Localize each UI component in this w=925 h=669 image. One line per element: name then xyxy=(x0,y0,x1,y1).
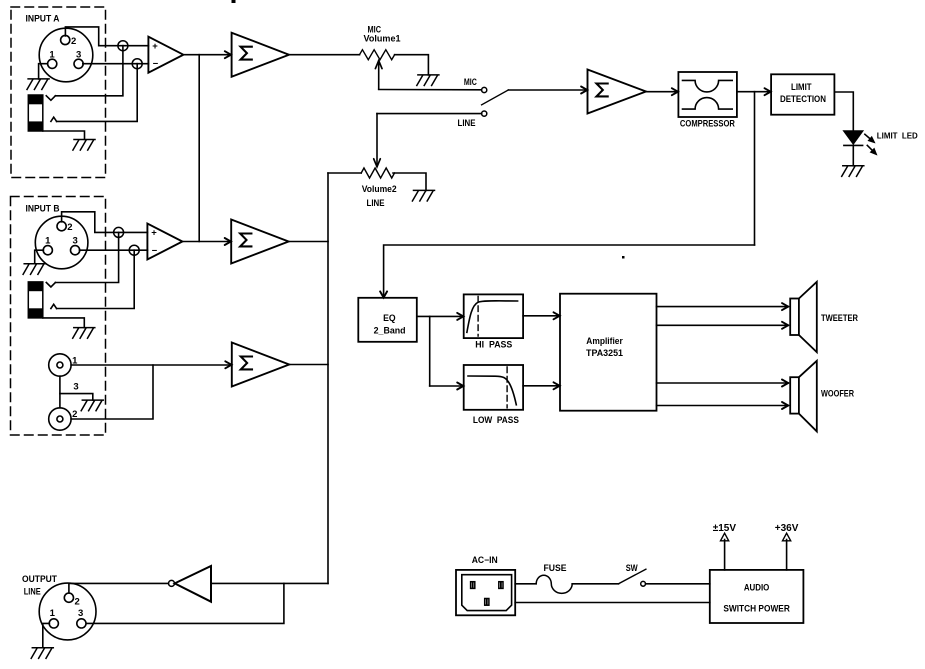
svg-text:+: + xyxy=(151,228,157,239)
wire AC neutral to power supply xyxy=(515,602,710,604)
wire LOW PASS to amplifier xyxy=(523,385,560,387)
junction circle A2 xyxy=(132,59,142,69)
switch terminal MIC xyxy=(482,87,487,92)
wire volume2 right to ground xyxy=(393,173,426,190)
connector XLR INPUT B xyxy=(35,216,88,269)
wire jack J-A ring to junction A2 xyxy=(57,64,138,122)
svg-text:TWEETER: TWEETER xyxy=(821,313,859,323)
wire compressor to limit detection xyxy=(737,91,771,93)
svg-text:WOOFER: WOOFER xyxy=(821,389,855,399)
summing amp SIGMA-3 xyxy=(232,343,289,387)
svg-text:LINE: LINE xyxy=(367,198,385,208)
wire XLR-A pin2 to junction A1 xyxy=(65,27,148,46)
power output +/-15V xyxy=(713,523,737,570)
wire sigma3 output to bus xyxy=(289,364,328,366)
wire EQ output branch xyxy=(417,316,430,386)
jack connector J-A xyxy=(28,95,43,131)
inverter U-INV xyxy=(169,566,212,602)
wire sigma2 output to bus xyxy=(289,241,328,243)
filter LOW PASS block xyxy=(464,365,523,425)
svg-text:INPUT B: INPUT B xyxy=(26,204,60,215)
volume1 wiper arrow xyxy=(378,61,380,89)
svg-text:Amplifier: Amplifier xyxy=(586,336,623,346)
wire fuse to switch xyxy=(572,583,618,585)
dashed enclosure INPUT B xyxy=(11,197,106,436)
connector AC-IN inlet xyxy=(456,555,515,615)
jack J-B tip contact xyxy=(46,283,55,288)
ground jack J-B sleeve xyxy=(73,328,95,339)
wire XLR-OUT pin1 to ground xyxy=(43,623,50,647)
LED D1 limit xyxy=(843,131,863,146)
svg-text:1: 1 xyxy=(49,50,55,61)
wire volume2 left to bus xyxy=(328,172,361,174)
svg-text:+36V: +36V xyxy=(775,523,799,534)
svg-text:AUDIO: AUDIO xyxy=(744,582,770,592)
junction circle B1 xyxy=(114,227,124,237)
switch terminal LINE xyxy=(482,111,487,116)
jack J-A tip contact xyxy=(46,96,55,101)
svg-text:Volume1: Volume1 xyxy=(364,34,401,44)
amplifier U-AMP TPA3251 block xyxy=(560,294,657,411)
power supply AUDIO SWITCH POWER block xyxy=(710,570,804,623)
svg-text:3: 3 xyxy=(76,50,81,61)
fuse F1 xyxy=(536,563,572,593)
wire amp B output to sigma 2 xyxy=(184,241,232,243)
wire inverter out to XLR-OUT pin2 xyxy=(69,583,168,593)
wire jack J-B tip to junction B1 xyxy=(55,232,118,282)
svg-text:AC−IN: AC−IN xyxy=(472,555,498,565)
svg-text:3: 3 xyxy=(73,382,78,393)
jack J-B ring contact xyxy=(51,304,57,308)
svg-text:1: 1 xyxy=(45,235,51,246)
wire limit detection to LED xyxy=(834,92,853,131)
wire XLR-B pin1 to ground xyxy=(35,250,44,264)
svg-text:2: 2 xyxy=(67,222,72,233)
wire LINE contact to volume2 wiper xyxy=(377,113,482,115)
pin labels XLR-OUT xyxy=(50,597,84,620)
wire bus to inverter xyxy=(211,582,328,584)
ground XLR-OUT pin1 xyxy=(31,648,53,659)
op-amp A (input A diff amp) xyxy=(148,37,183,73)
wire amp A output to sigma 1 xyxy=(185,54,232,56)
filter HI PASS block xyxy=(464,294,523,349)
ground RCA shield xyxy=(81,400,103,411)
wire XLR-A pin3 to amp minus xyxy=(83,63,149,65)
stray dot top xyxy=(232,0,236,3)
wire pin3 tap junction xyxy=(86,583,284,623)
svg-text:TPA3251: TPA3251 xyxy=(586,348,623,358)
speaker WOOFER xyxy=(790,361,854,432)
svg-text:2_Band: 2_Band xyxy=(374,325,406,335)
wire to LOW PASS xyxy=(430,385,464,387)
wire AC line to fuse xyxy=(515,583,536,585)
wire amp to tweeter - xyxy=(657,324,789,326)
wire RCA-1 to sigma 3 xyxy=(71,364,232,366)
connector XLR OUTPUT xyxy=(39,583,96,640)
svg-text:2: 2 xyxy=(75,597,80,608)
pin labels XLR-A xyxy=(49,36,81,61)
wire switch to sigma 4 xyxy=(508,89,587,91)
wire XLR-A pin1 to ground xyxy=(39,64,48,79)
switch SW1 blade xyxy=(482,90,509,105)
potentiometer MIC Volume1 xyxy=(360,24,401,59)
volume2 wiper arrow xyxy=(376,114,378,166)
speaker TWEETER xyxy=(790,282,858,352)
wire volume1 wiper to MIC switch contact xyxy=(379,89,482,91)
bus wire vertical (mix bus) xyxy=(327,173,329,583)
dashed enclosure INPUT A xyxy=(11,7,106,178)
switch SW power xyxy=(619,563,646,586)
svg-text:±15V: ±15V xyxy=(713,523,737,534)
wire jack J-B ring to junction B2 xyxy=(57,250,135,308)
svg-text:3: 3 xyxy=(72,235,77,246)
LED light arrows xyxy=(865,134,877,154)
wire LED to ground xyxy=(852,145,854,165)
svg-text:COMPRESSOR: COMPRESSOR xyxy=(680,118,736,128)
svg-text:SW: SW xyxy=(626,563,639,573)
jack J-A ring contact xyxy=(51,117,57,121)
svg-text:LIMIT: LIMIT xyxy=(791,82,812,92)
stray dot middle xyxy=(622,256,625,259)
summing amp SIGMA-2 xyxy=(231,220,288,264)
wire amp to woofer - xyxy=(657,405,789,407)
wire volume1 right to ground xyxy=(395,55,429,75)
potentiometer Volume2 LINE xyxy=(361,168,397,208)
ground volume1 xyxy=(417,75,439,86)
svg-text:SWITCH POWER: SWITCH POWER xyxy=(723,604,790,614)
svg-text:MIC: MIC xyxy=(464,77,478,87)
svg-text:EQ: EQ xyxy=(383,313,396,323)
power output +36V xyxy=(775,523,799,570)
wire jack J-A sleeve to ground xyxy=(43,131,85,140)
wire RCA shield to ground xyxy=(60,394,93,401)
wire XLR-B pin2 to junction B1 xyxy=(62,212,148,233)
wire feedback to EQ xyxy=(384,245,755,298)
jack connector J-B xyxy=(28,282,43,318)
svg-text:HI PASS: HI PASS xyxy=(475,340,512,350)
svg-text:OUTPUT: OUTPUT xyxy=(22,574,58,584)
ground jack J-A sleeve xyxy=(73,140,95,151)
ground XLR-B pin1 xyxy=(23,264,45,275)
svg-text:−: − xyxy=(152,246,158,257)
svg-text:LOW PASS: LOW PASS xyxy=(473,415,519,425)
svg-text:FUSE: FUSE xyxy=(544,563,567,573)
wire jack J-A tip to junction A1 xyxy=(55,46,123,96)
svg-text:Volume2: Volume2 xyxy=(362,184,397,194)
wire RCA link vertical xyxy=(59,376,61,408)
wire XLR-B pin3 to amp minus xyxy=(80,249,148,251)
pin labels XLR-B xyxy=(45,222,78,247)
svg-text:LINE: LINE xyxy=(458,118,476,128)
junction circle A1 xyxy=(118,41,128,51)
wire sigma4 to compressor xyxy=(646,91,678,93)
svg-text:+: + xyxy=(152,41,158,52)
wire HI PASS to amplifier xyxy=(523,315,560,317)
svg-text:2: 2 xyxy=(71,36,76,47)
svg-text:−: − xyxy=(153,59,159,70)
ground LED xyxy=(842,166,864,177)
junction circle B2 xyxy=(129,245,139,255)
ground volume2 xyxy=(412,190,434,201)
connector XLR INPUT A xyxy=(39,28,93,82)
ground XLR-A pin1 xyxy=(27,79,49,90)
node branch amp A output xyxy=(198,55,200,242)
op-amp B (input B diff amp) xyxy=(147,224,182,260)
svg-text:LIMIT LED: LIMIT LED xyxy=(877,131,918,141)
wire RCA-2 join xyxy=(71,365,153,419)
svg-text:3: 3 xyxy=(78,608,83,619)
connector RCA-2 xyxy=(49,408,78,430)
svg-text:LINE: LINE xyxy=(24,587,41,597)
node feedback junction xyxy=(754,92,756,245)
wire jack J-B sleeve to ground xyxy=(43,318,85,328)
limit detection U-LIM block xyxy=(771,74,834,114)
wire amp to woofer + xyxy=(657,382,789,384)
wire amp to tweeter + xyxy=(657,306,789,308)
wire to HI PASS xyxy=(430,315,464,317)
label OUTPUT LINE xyxy=(22,574,58,597)
svg-text:1: 1 xyxy=(50,608,56,619)
summing amp SIGMA-4 xyxy=(588,70,647,114)
svg-text:INPUT A: INPUT A xyxy=(26,14,60,25)
wire sigma1 output to volume1 xyxy=(289,54,360,56)
compressor U-COMP block xyxy=(678,72,737,117)
wire switch to power supply xyxy=(646,583,710,585)
svg-text:DETECTION: DETECTION xyxy=(780,94,826,104)
EQ block xyxy=(358,298,417,342)
summing amp SIGMA-1 xyxy=(232,33,289,77)
connector RCA-1 xyxy=(49,354,78,376)
